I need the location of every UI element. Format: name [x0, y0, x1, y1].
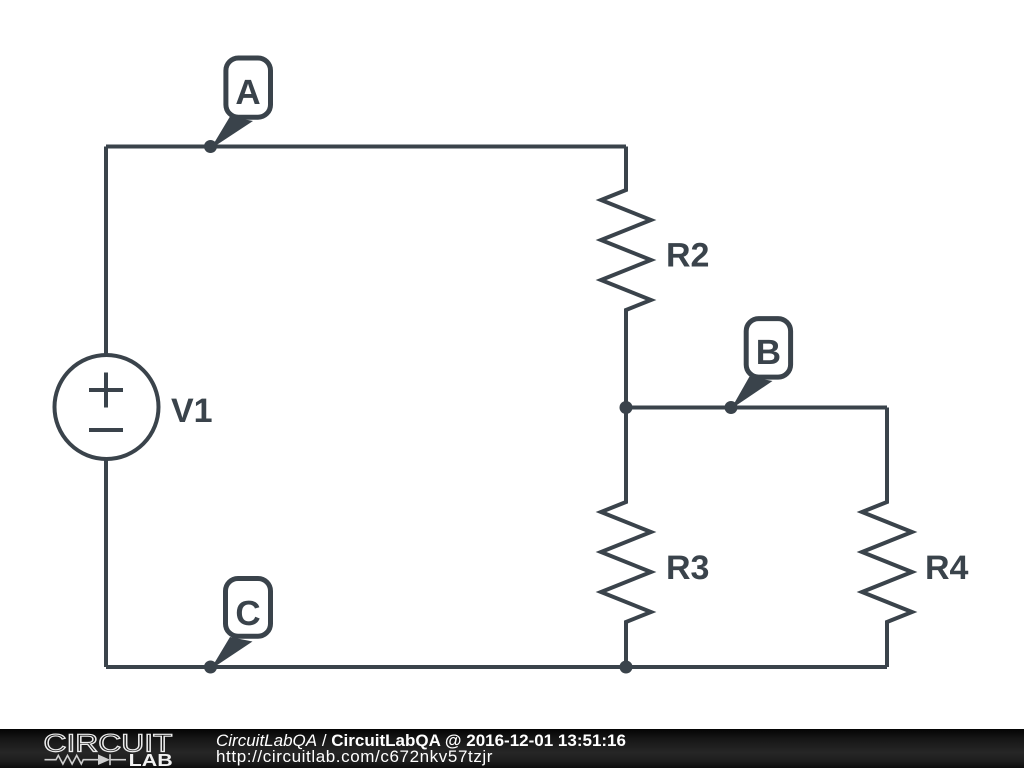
svg-text:LAB: LAB: [129, 750, 173, 768]
flag pointer C: [211, 637, 253, 670]
flag box C: [226, 579, 271, 637]
node dot A: [204, 140, 217, 153]
svg-text:B: B: [756, 333, 781, 372]
footer bar: [0, 729, 1024, 768]
footer text: [216, 733, 626, 766]
logo resistor-diode symbol: [45, 754, 127, 765]
node junction R2/R3/B: [620, 401, 633, 414]
flag pointer A: [211, 117, 254, 150]
resistor R3: [601, 408, 651, 668]
resistor R2: [601, 147, 651, 408]
resistor R4: [862, 408, 912, 668]
svg-text:R2: R2: [666, 237, 709, 275]
CircuitLab logo: [42, 729, 182, 768]
node junction bottom R3: [620, 661, 633, 674]
wire node B horizontal (junction to R4 top): [626, 406, 887, 410]
wire top horizontal A-node to R2 branch: [106, 145, 626, 149]
svg-text:V1: V1: [171, 392, 213, 430]
flag box A: [226, 58, 271, 117]
flag pointer B: [731, 377, 773, 410]
node dot B: [725, 401, 738, 414]
wire left vertical upper (top corner to V1 plus terminal): [104, 147, 108, 356]
voltage source V1: [55, 355, 159, 459]
node dot C: [204, 661, 217, 674]
svg-text:C: C: [235, 594, 260, 633]
wire left vertical lower (V1 minus terminal to bottom corner): [104, 459, 108, 667]
flag box B: [746, 319, 790, 378]
wire bottom horizontal (C node to R4 branch): [106, 665, 887, 669]
logo diode triangle: [98, 754, 110, 765]
svg-text:A: A: [235, 73, 260, 112]
svg-text:R3: R3: [666, 549, 709, 587]
svg-text:R4: R4: [925, 549, 969, 587]
